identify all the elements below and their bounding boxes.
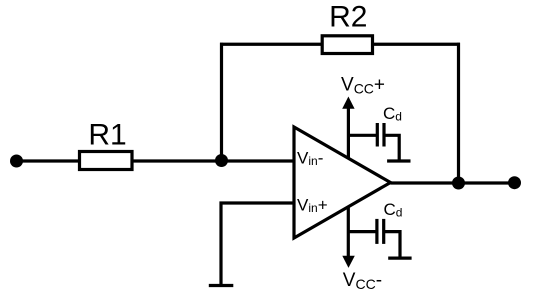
wire: non-inverting input to ground — [221, 203, 294, 286]
wire: R1 to op-amp inverting input — [132, 159, 294, 162]
node: inverting input junction — [215, 154, 228, 167]
ground (non-inverting input) — [209, 284, 234, 287]
wire: Vcc+ supply line — [347, 106, 350, 158]
svg-text:VCC-: VCC- — [343, 270, 382, 292]
wire: feedback top right segment — [373, 43, 461, 46]
capacitor Cd (bottom decoupling) — [375, 219, 378, 244]
arrowhead Vcc- — [342, 256, 355, 268]
resistor R2 — [322, 36, 372, 54]
wire: Vcc- supply line — [347, 207, 350, 259]
capacitor Cd (top decoupling) — [376, 123, 379, 147]
arrowhead Vcc+ — [342, 97, 354, 109]
wire: input terminal to resistor R1 — [17, 159, 80, 162]
svg-text:Cd: Cd — [383, 104, 402, 124]
wire: Vcc+ line to top decoupling capacitor — [348, 134, 377, 137]
svg-text:VCC+: VCC+ — [341, 75, 385, 97]
wire: top capacitor to ground — [384, 135, 399, 161]
ground (bottom decoupling) — [388, 257, 411, 260]
input terminal dot — [10, 155, 23, 168]
wire: Vcc- line to bottom decoupling capacitor — [348, 230, 377, 233]
wire: bottom capacitor to ground — [384, 232, 400, 259]
svg-text:Cd: Cd — [384, 200, 403, 220]
resistor R1 — [80, 152, 133, 170]
wire: feedback top left segment — [220, 43, 322, 46]
ground (top decoupling) — [387, 159, 410, 162]
wire: junction up to feedback path — [220, 43, 223, 161]
output terminal dot — [508, 176, 521, 189]
wire: op-amp output — [391, 181, 515, 184]
op-amp U1 — [294, 127, 391, 238]
node: output junction — [452, 177, 465, 190]
wire: feedback down to output node — [457, 43, 460, 183]
svg-text:R2: R2 — [329, 1, 367, 34]
svg-text:R1: R1 — [88, 118, 126, 151]
